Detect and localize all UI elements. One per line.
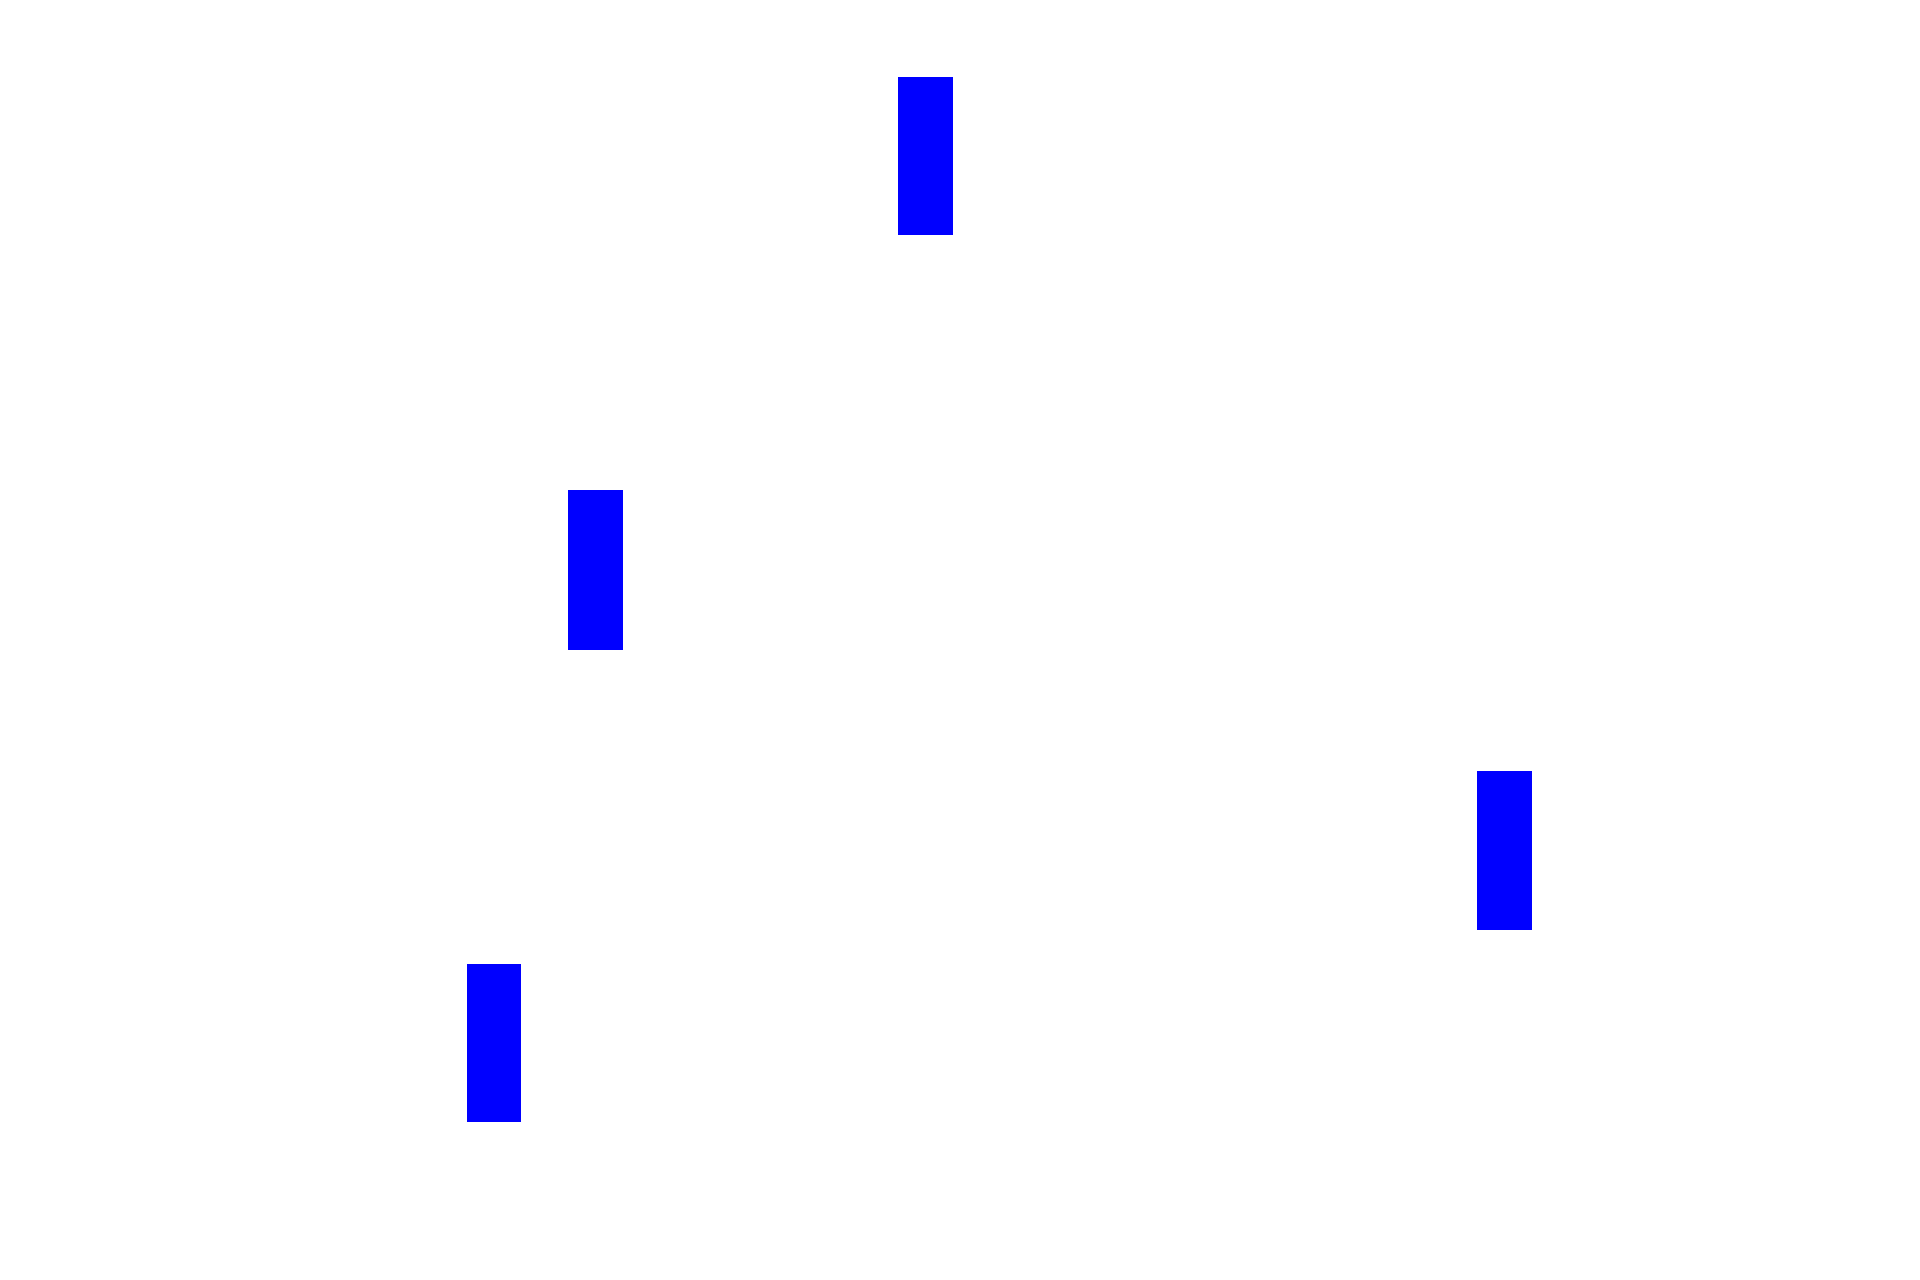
tile 1 (top middle blue rectangle) xyxy=(898,77,953,235)
tile 4 (bottom-left blue rectangle) xyxy=(467,964,521,1122)
tile 3 (right blue rectangle) xyxy=(1477,771,1532,930)
tile 2 (center-left blue rectangle) xyxy=(568,490,623,650)
